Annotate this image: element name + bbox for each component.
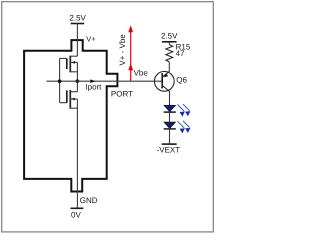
svg-text:Iport: Iport (85, 82, 102, 91)
LED D2 triangle (164, 122, 175, 128)
wire Q6 collector to LED D1 (169, 92, 171, 106)
svg-text:2.5V: 2.5V (161, 32, 178, 41)
transistor M2 source stub (70, 107, 77, 109)
svg-text:GND: GND (80, 196, 98, 205)
wire input horizontal (46, 80, 77, 82)
wire V+ vertical (2.5V bar through V+ tab into PMOS drain) (76, 24, 78, 57)
transistor M1 body stub (70, 61, 77, 63)
transistor M2 drain stub (70, 91, 77, 93)
svg-text:47: 47 (176, 49, 185, 58)
transistor Q6 (PNP) circle (154, 71, 174, 91)
transistor Q6 base bar (161, 73, 163, 88)
LED D2 cathode bar (164, 128, 176, 130)
transistor M1 (PMOS) gate bar (66, 58, 68, 69)
red arrowhead middle (Vbe) (128, 63, 133, 70)
supply bar 2.5V (left) (71, 23, 85, 25)
transistor M1 source stub (70, 71, 77, 73)
node gate junction dot (58, 79, 62, 83)
svg-text:V+: V+ (86, 35, 96, 44)
transistor M2 body arrow (71, 98, 75, 101)
LED D2 emission arrow 1 (178, 121, 185, 133)
resistor R15 zigzag (166, 45, 173, 62)
LED D1 triangle (164, 105, 175, 111)
LED D1 cathode bar (164, 111, 176, 113)
wire output to PORT and Q6 base (77, 80, 162, 82)
svg-text:0V: 0V (71, 210, 81, 219)
border frame (2, 2, 214, 232)
transistor M1 gate lead (60, 57, 67, 59)
node output junction dot (76, 79, 80, 83)
transistor M1 body arrow (71, 61, 75, 64)
wire LED D1 to LED D2 (169, 112, 171, 122)
wire M1 source/body to output node (76, 62, 78, 81)
wire M2 source to GND pin and 0V (76, 99, 78, 208)
transistor Q6 collector diagonal (162, 85, 170, 91)
wire gate junction vertical (59, 58, 61, 102)
IC box outline with V+, PORT, GND pin tabs (24, 40, 117, 191)
arrow Iport current direction (90, 79, 95, 83)
svg-text:2.5V: 2.5V (69, 13, 86, 22)
svg-text:PORT: PORT (111, 89, 133, 98)
transistor M2 (NMOS) gate bar (66, 90, 68, 102)
transistor M2 body stub (70, 98, 77, 100)
svg-text:Vbe: Vbe (134, 68, 149, 77)
LED D1 emission arrow 1 (178, 105, 185, 117)
ground bar 0V (71, 207, 84, 209)
wire LED D2 to -VEXT bar (169, 129, 171, 144)
red arrowhead top (V+ - Vbe) (128, 25, 133, 32)
terminal bar -VEXT (162, 143, 177, 145)
svg-text:-VEXT: -VEXT (157, 145, 181, 154)
LED D1 emission arrow 2 (183, 104, 190, 116)
transistor M1 channel bar (69, 56, 71, 73)
wire 2.5V bar to resistor R15 (168, 42, 170, 45)
LED D2 emission arrow 2 (183, 121, 190, 133)
transistor M1 drain stub (70, 55, 77, 57)
transistor M2 gate lead (60, 102, 67, 104)
transistor M2 channel bar (69, 90, 71, 109)
supply bar 2.5V (right) (162, 41, 177, 43)
wire R15 to Q6 emitter (168, 62, 170, 72)
svg-text:V+ - Vbe: V+ - Vbe (118, 34, 127, 66)
svg-text:Q6: Q6 (176, 75, 187, 84)
transistor Q6 emitter diagonal (162, 71, 169, 77)
red annotation line (Vbe / V+ - Vbe) (130, 27, 132, 81)
transistor Q6 emitter arrow (164, 73, 168, 77)
wire M2 drain to output node (76, 81, 78, 92)
